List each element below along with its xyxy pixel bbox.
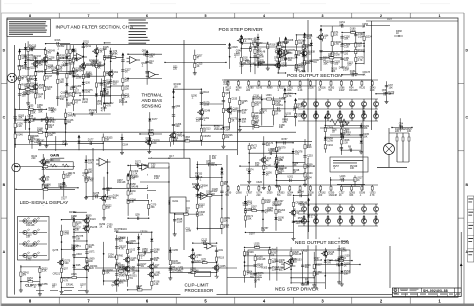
svg-text:4.7K: 4.7K — [26, 259, 31, 262]
svg-text:1/2W: 1/2W — [294, 69, 300, 72]
svg-text:D240: D240 — [38, 71, 44, 74]
svg-text:1K: 1K — [46, 178, 49, 181]
svg-text:1K: 1K — [339, 194, 342, 197]
svg-text:2.2K: 2.2K — [173, 139, 178, 142]
svg-text:R60: R60 — [119, 254, 124, 257]
svg-text:2.2K: 2.2K — [260, 112, 265, 115]
svg-text:220: 220 — [239, 64, 244, 67]
svg-text:1N4148: 1N4148 — [257, 258, 266, 261]
svg-text:33K: 33K — [38, 111, 43, 114]
svg-text:10K: 10K — [389, 86, 394, 89]
svg-text:2.2K: 2.2K — [328, 253, 333, 256]
svg-text:GAIN: GAIN — [50, 154, 59, 158]
svg-text:10K: 10K — [131, 259, 136, 262]
svg-text:100: 100 — [48, 126, 53, 129]
svg-text:RV238: RV238 — [90, 226, 98, 229]
svg-text:CR342: CR342 — [69, 211, 77, 214]
svg-text:4.7K: 4.7K — [251, 208, 256, 211]
svg-text:POS OUTPUT SECTION: POS OUTPUT SECTION — [287, 73, 342, 79]
svg-text:100: 100 — [125, 80, 130, 83]
svg-text:THERMAL: THERMAL — [142, 93, 164, 98]
svg-text:2.2K: 2.2K — [154, 283, 159, 286]
svg-text:POS STEP DRIVER: POS STEP DRIVER — [219, 27, 264, 33]
svg-text:2.2K: 2.2K — [282, 59, 287, 62]
svg-text:100: 100 — [347, 64, 352, 67]
svg-text:1K: 1K — [275, 112, 278, 115]
svg-text:33K: 33K — [103, 48, 108, 51]
svg-text:1/2W: 1/2W — [63, 233, 69, 236]
svg-text:2.2K: 2.2K — [17, 125, 22, 128]
svg-text:R21: R21 — [38, 283, 43, 286]
svg-text:1K: 1K — [357, 179, 360, 182]
svg-text:1N4148: 1N4148 — [272, 204, 281, 207]
svg-text:2.2K: 2.2K — [83, 43, 88, 46]
svg-text:R396: R396 — [335, 260, 341, 263]
svg-text:100: 100 — [60, 81, 65, 84]
svg-text:220: 220 — [113, 83, 118, 86]
svg-text:1/2W: 1/2W — [334, 54, 340, 57]
svg-text:1N4148: 1N4148 — [100, 93, 109, 96]
svg-text:1/2W: 1/2W — [76, 76, 82, 79]
svg-text:D248: D248 — [204, 109, 210, 112]
svg-text:1N4148: 1N4148 — [257, 51, 266, 54]
svg-text:4.7K: 4.7K — [119, 248, 124, 251]
svg-text:2.2K: 2.2K — [370, 89, 375, 92]
svg-text:1/2W: 1/2W — [89, 111, 95, 114]
svg-text:33K: 33K — [363, 135, 368, 138]
svg-text:1K: 1K — [98, 67, 101, 70]
svg-text:U143: U143 — [256, 87, 262, 90]
svg-text:C91: C91 — [114, 71, 119, 74]
svg-text:10K: 10K — [195, 175, 200, 178]
svg-text:2.2K: 2.2K — [297, 115, 302, 118]
svg-text:SH–002403–88: SH–002403–88 — [423, 289, 448, 293]
svg-text:C104: C104 — [122, 143, 128, 146]
svg-text:1N4148: 1N4148 — [119, 101, 128, 104]
svg-text:R316: R316 — [55, 39, 61, 42]
svg-text:CR351: CR351 — [275, 104, 283, 107]
svg-text:D: D — [465, 48, 468, 52]
svg-text:1K: 1K — [362, 25, 365, 28]
svg-text:33K: 33K — [31, 112, 36, 115]
svg-text:220: 220 — [340, 136, 345, 139]
svg-text:10K: 10K — [224, 219, 229, 222]
svg-text:C234: C234 — [327, 144, 333, 147]
svg-text:1N4148: 1N4148 — [93, 62, 102, 65]
svg-text:1N4148: 1N4148 — [329, 194, 338, 197]
svg-text:2.2K: 2.2K — [125, 96, 130, 99]
svg-text:220: 220 — [279, 261, 284, 264]
svg-text:2.2K: 2.2K — [94, 194, 99, 197]
svg-text:100: 100 — [71, 247, 76, 250]
svg-text:33K: 33K — [242, 120, 247, 123]
svg-text:33K: 33K — [154, 259, 159, 262]
svg-text:1K: 1K — [155, 266, 158, 269]
svg-text:Q164: Q164 — [298, 191, 305, 194]
svg-text:C327: C327 — [73, 89, 79, 92]
svg-text:1/2W: 1/2W — [267, 209, 273, 212]
svg-text:100: 100 — [65, 93, 70, 96]
svg-text:CR380: CR380 — [26, 245, 34, 248]
svg-text:2: 2 — [380, 14, 382, 18]
svg-text:R389: R389 — [267, 87, 273, 90]
svg-text:CR170: CR170 — [68, 172, 76, 175]
svg-text:4.7K: 4.7K — [274, 164, 279, 167]
svg-text:B: B — [3, 183, 6, 187]
svg-text:2.2K: 2.2K — [154, 177, 159, 180]
svg-text:R120: R120 — [359, 87, 365, 90]
svg-text:INPUT AND FILTER SECTION, CH A: INPUT AND FILTER SECTION, CH A — [56, 24, 135, 29]
svg-text:1/2W: 1/2W — [256, 274, 262, 277]
svg-text:CR221: CR221 — [53, 273, 61, 276]
svg-text:1/2W: 1/2W — [177, 220, 183, 223]
svg-text:2.2K: 2.2K — [307, 146, 312, 149]
svg-text:1K: 1K — [84, 179, 87, 182]
svg-text:33K: 33K — [363, 127, 368, 130]
svg-text:100: 100 — [295, 153, 300, 156]
svg-text:220: 220 — [152, 142, 157, 145]
svg-text:AND BIAS: AND BIAS — [142, 98, 163, 103]
svg-text:4.7K: 4.7K — [245, 62, 250, 65]
svg-text:220: 220 — [318, 194, 323, 197]
svg-text:C337: C337 — [316, 264, 322, 267]
svg-text:CR374: CR374 — [246, 168, 254, 171]
svg-text:1N4148: 1N4148 — [206, 193, 215, 196]
svg-text:33K: 33K — [97, 102, 102, 105]
svg-text:2.2K: 2.2K — [24, 87, 29, 90]
svg-text:1K: 1K — [57, 59, 60, 62]
svg-text:220: 220 — [246, 89, 251, 92]
svg-text:10K: 10K — [34, 141, 39, 144]
svg-text:1K: 1K — [231, 120, 234, 123]
svg-text:100: 100 — [288, 59, 293, 62]
svg-text:1K: 1K — [254, 281, 257, 284]
svg-text:U303: U303 — [76, 253, 82, 256]
svg-text:4.7K: 4.7K — [251, 147, 256, 150]
svg-text:D139: D139 — [267, 192, 273, 195]
svg-text:33K: 33K — [292, 164, 297, 167]
svg-text:RV291: RV291 — [42, 185, 50, 188]
svg-text:R116: R116 — [203, 91, 209, 94]
svg-text:220: 220 — [212, 157, 217, 160]
svg-text:3: 3 — [322, 14, 324, 18]
svg-text:220: 220 — [196, 120, 201, 123]
svg-text:1/2W: 1/2W — [327, 139, 333, 142]
svg-text:1K: 1K — [332, 131, 335, 134]
svg-text:220: 220 — [88, 171, 93, 174]
svg-text:33K: 33K — [76, 237, 81, 240]
svg-text:1/2W: 1/2W — [254, 245, 260, 248]
svg-text:100: 100 — [125, 87, 130, 90]
svg-text:100: 100 — [174, 85, 179, 88]
svg-text:33K: 33K — [247, 217, 252, 220]
svg-text:1N4148: 1N4148 — [270, 150, 279, 153]
svg-text:U329: U329 — [71, 273, 77, 276]
svg-text:1K: 1K — [130, 192, 133, 195]
svg-text:R81: R81 — [188, 272, 193, 275]
svg-text:U371: U371 — [89, 251, 95, 254]
svg-text:1/2W: 1/2W — [82, 101, 88, 104]
svg-text:1/2W: 1/2W — [343, 69, 349, 72]
svg-text:Q235: Q235 — [220, 265, 227, 268]
svg-text:1K: 1K — [294, 261, 297, 264]
svg-text:4.7K: 4.7K — [88, 180, 93, 183]
svg-text:1K: 1K — [344, 265, 347, 268]
svg-text:10K: 10K — [88, 161, 93, 164]
svg-text:220: 220 — [290, 260, 295, 263]
svg-text:4.7K: 4.7K — [85, 91, 90, 94]
svg-text:D: D — [3, 48, 6, 52]
svg-text:2.2K: 2.2K — [343, 141, 348, 144]
svg-text:1K: 1K — [99, 225, 102, 228]
svg-text:PROCESSOR: PROCESSOR — [185, 288, 215, 293]
svg-text:100: 100 — [298, 42, 303, 45]
svg-text:B: B — [465, 183, 468, 187]
svg-text:33K: 33K — [399, 125, 404, 128]
svg-text:NEG STEP DRIVER: NEG STEP DRIVER — [275, 286, 319, 292]
svg-text:NEG OUTPUT SECTION: NEG OUTPUT SECTION — [295, 240, 350, 246]
svg-text:1K: 1K — [276, 44, 279, 47]
svg-text:RV83: RV83 — [72, 58, 79, 61]
svg-text:33K: 33K — [151, 206, 156, 209]
svg-text:1N4148: 1N4148 — [58, 185, 67, 188]
svg-text:220: 220 — [90, 267, 95, 270]
svg-text:4.7K: 4.7K — [334, 43, 339, 46]
svg-text:220: 220 — [272, 268, 277, 271]
svg-text:Q360: Q360 — [236, 192, 243, 195]
svg-text:U201: U201 — [287, 176, 293, 179]
svg-text:220: 220 — [278, 219, 283, 222]
svg-text:LED–SIGNAL DISPLAY: LED–SIGNAL DISPLAY — [20, 200, 69, 205]
svg-text:33K: 33K — [349, 194, 354, 197]
svg-text:100: 100 — [350, 72, 355, 75]
svg-text:R119: R119 — [218, 256, 224, 259]
svg-text:D177: D177 — [152, 118, 158, 121]
svg-text:1/2W: 1/2W — [339, 89, 345, 92]
svg-text:U104: U104 — [307, 172, 313, 175]
svg-text:C355: C355 — [42, 283, 48, 286]
svg-text:Q275: Q275 — [52, 249, 59, 252]
svg-text:4.7K: 4.7K — [82, 174, 87, 177]
svg-text:R172: R172 — [211, 164, 217, 167]
svg-text:220: 220 — [47, 88, 52, 91]
svg-text:4.7K: 4.7K — [287, 95, 292, 98]
svg-text:C: C — [3, 116, 6, 120]
svg-text:Q24: Q24 — [16, 78, 21, 81]
svg-text:1K: 1K — [197, 65, 200, 68]
svg-text:10K: 10K — [75, 229, 80, 232]
svg-text:C326: C326 — [256, 181, 262, 184]
svg-text:1K: 1K — [316, 273, 319, 276]
svg-text:Q233: Q233 — [111, 284, 118, 287]
svg-text:33K: 33K — [60, 98, 65, 101]
svg-text:100: 100 — [334, 63, 339, 66]
svg-text:33K: 33K — [47, 67, 52, 70]
svg-text:33K: 33K — [105, 139, 110, 142]
svg-text:Q60: Q60 — [176, 105, 181, 108]
svg-text:1/2W: 1/2W — [142, 250, 148, 253]
svg-text:4.7K: 4.7K — [106, 104, 111, 107]
svg-text:1/2W: 1/2W — [212, 190, 218, 193]
svg-text:220: 220 — [154, 251, 159, 254]
svg-text:220: 220 — [31, 157, 36, 160]
svg-text:1: 1 — [439, 14, 441, 18]
svg-text:Q36: Q36 — [85, 81, 90, 84]
svg-text:RV52: RV52 — [298, 217, 305, 220]
svg-text:4.7K: 4.7K — [72, 51, 77, 54]
svg-text:220: 220 — [300, 204, 305, 207]
svg-text:4.7K: 4.7K — [224, 226, 229, 229]
svg-text:1K: 1K — [363, 73, 366, 76]
svg-text:D104: D104 — [121, 228, 127, 231]
svg-text:33K: 33K — [106, 207, 111, 210]
svg-text:1K: 1K — [83, 227, 86, 230]
svg-text:33K: 33K — [106, 189, 111, 192]
svg-text:10K: 10K — [350, 167, 355, 170]
svg-text:1/2W: 1/2W — [186, 230, 192, 233]
svg-text:D241: D241 — [173, 200, 179, 203]
svg-text:33K: 33K — [18, 117, 23, 120]
svg-text:1N4148: 1N4148 — [67, 115, 76, 118]
svg-text:100: 100 — [27, 80, 32, 83]
svg-text:33K: 33K — [242, 111, 247, 114]
svg-text:A: A — [3, 250, 6, 254]
svg-text:CR26: CR26 — [232, 46, 239, 49]
svg-text:10K: 10K — [253, 124, 258, 127]
svg-text:100: 100 — [151, 166, 156, 169]
svg-text:Q66: Q66 — [382, 89, 387, 92]
svg-text:CLIP: CLIP — [25, 284, 34, 288]
svg-text:1N4148: 1N4148 — [349, 89, 358, 92]
svg-text:1K: 1K — [266, 174, 269, 177]
svg-text:Q224: Q224 — [366, 36, 373, 39]
svg-text:1/2W: 1/2W — [243, 204, 249, 207]
svg-text:1N4148: 1N4148 — [172, 262, 181, 265]
svg-text:1/2W: 1/2W — [350, 30, 356, 33]
svg-text:1K: 1K — [71, 217, 74, 220]
svg-text:33K: 33K — [149, 56, 154, 59]
svg-text:R305: R305 — [262, 266, 268, 269]
svg-text:1N4148: 1N4148 — [130, 185, 139, 188]
svg-text:U379: U379 — [25, 119, 31, 122]
svg-text:220: 220 — [344, 52, 349, 55]
svg-text:CR141: CR141 — [66, 283, 74, 286]
svg-text:220: 220 — [236, 52, 241, 55]
svg-text:1/2W: 1/2W — [122, 268, 128, 271]
svg-text:2.2K: 2.2K — [201, 241, 206, 244]
svg-text:1/2W: 1/2W — [265, 201, 271, 204]
svg-text:1K: 1K — [203, 130, 206, 133]
svg-text:D31: D31 — [219, 249, 224, 252]
svg-text:33K: 33K — [305, 266, 310, 269]
svg-text:1/2W: 1/2W — [62, 143, 68, 146]
svg-text:100: 100 — [65, 262, 70, 265]
svg-text:C318: C318 — [17, 65, 23, 68]
svg-text:220: 220 — [266, 144, 271, 147]
svg-text:220: 220 — [334, 33, 339, 36]
svg-text:CR153: CR153 — [203, 135, 211, 138]
svg-text:D397: D397 — [249, 233, 255, 236]
svg-text:D332: D332 — [302, 62, 308, 65]
svg-text:1/2W: 1/2W — [29, 47, 35, 50]
svg-text:D: D — [394, 288, 396, 292]
svg-text:100: 100 — [199, 206, 204, 209]
svg-text:1N4148: 1N4148 — [253, 97, 262, 100]
svg-text:CR161: CR161 — [55, 69, 63, 72]
svg-text:10K: 10K — [38, 95, 43, 98]
svg-text:U136: U136 — [308, 87, 314, 90]
svg-text:5: 5 — [205, 14, 207, 18]
svg-text:Q59: Q59 — [135, 213, 140, 216]
svg-text:4.7K: 4.7K — [370, 194, 375, 197]
svg-text:33K: 33K — [344, 38, 349, 41]
svg-text:C: C — [465, 116, 468, 120]
svg-text:33K: 33K — [199, 196, 204, 199]
svg-text:R86: R86 — [276, 60, 281, 63]
svg-text:4: 4 — [263, 14, 265, 18]
svg-text:1K: 1K — [396, 32, 399, 35]
svg-text:U363: U363 — [266, 94, 272, 97]
svg-text:2.2K: 2.2K — [63, 64, 68, 67]
svg-text:33K: 33K — [130, 201, 135, 204]
svg-text:220: 220 — [155, 274, 160, 277]
svg-text:C159: C159 — [279, 97, 285, 100]
svg-text:220: 220 — [176, 125, 181, 128]
svg-text:10K: 10K — [86, 74, 91, 77]
svg-text:1K: 1K — [293, 109, 296, 112]
svg-text:A: A — [465, 250, 468, 254]
svg-text:33K: 33K — [323, 63, 328, 66]
svg-text:1/2W: 1/2W — [148, 131, 154, 134]
svg-text:10K: 10K — [89, 260, 94, 263]
svg-text:RV57: RV57 — [282, 138, 289, 141]
svg-text:4.7K: 4.7K — [358, 59, 363, 62]
svg-text:220: 220 — [256, 194, 261, 197]
svg-text:220: 220 — [173, 68, 178, 71]
svg-text:C155: C155 — [231, 98, 237, 101]
svg-text:10K: 10K — [26, 236, 31, 239]
svg-text:Q93: Q93 — [142, 49, 147, 52]
svg-text:D25: D25 — [76, 264, 81, 267]
svg-text:OUT: OUT — [387, 18, 393, 21]
svg-text:100: 100 — [261, 229, 266, 232]
svg-text:2.2K: 2.2K — [49, 109, 54, 112]
svg-text:2.2K: 2.2K — [344, 46, 349, 49]
svg-text:U146: U146 — [17, 133, 23, 136]
svg-text:220: 220 — [395, 130, 400, 133]
svg-text:2.2K: 2.2K — [42, 270, 47, 273]
svg-text:10K: 10K — [184, 138, 189, 141]
svg-text:100: 100 — [27, 279, 32, 282]
svg-text:4.7K: 4.7K — [63, 279, 68, 282]
svg-text:100: 100 — [39, 86, 44, 89]
svg-text:1/2W: 1/2W — [253, 117, 259, 120]
svg-text:1/2W: 1/2W — [23, 93, 29, 96]
svg-text:2.2K: 2.2K — [48, 134, 53, 137]
svg-text:10K: 10K — [407, 130, 412, 133]
svg-text:220: 220 — [225, 136, 230, 139]
svg-text:Q232: Q232 — [27, 54, 34, 57]
svg-text:2.2K: 2.2K — [223, 83, 228, 86]
svg-text:8: 8 — [29, 14, 31, 18]
svg-text:100: 100 — [296, 222, 301, 225]
svg-text:220: 220 — [146, 139, 151, 142]
svg-text:4.7K: 4.7K — [37, 130, 42, 133]
svg-text:10K: 10K — [255, 164, 260, 167]
svg-text:C16: C16 — [178, 271, 183, 274]
svg-text:D124: D124 — [90, 218, 96, 221]
svg-text:2.2K: 2.2K — [298, 89, 303, 92]
